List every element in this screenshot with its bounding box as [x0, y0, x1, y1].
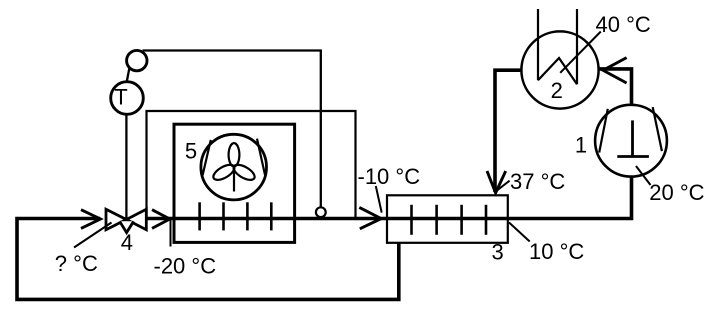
wire: main pipe from valve 4 through evaporator and exchanger 3 to compressor 1 suction [146, 176, 632, 218]
leader line for 37 °C [497, 181, 510, 191]
wire: compressor 1 discharge to condenser 2 [599, 69, 632, 105]
wire: condenser 2 outlet down to heat exchanger 3 top [495, 70, 522, 192]
evaporator tick 4 [270, 202, 273, 230]
leader line for 10 °C [509, 222, 530, 241]
compressor right chord [653, 107, 662, 151]
expansion valve 4 right triangle [126, 209, 146, 229]
fan left chord [203, 140, 211, 175]
condenser water pipe right [576, 9, 578, 84]
wire: sensing bulb line from bulb to node on suction pipe [143, 51, 321, 208]
heat exchanger 3 box [387, 195, 508, 243]
svg-text:10 °C: 10 °C [529, 239, 584, 264]
wire: bottom return loop from heat exchanger 3 outlet to expansion valve inlet [17, 219, 399, 300]
condenser zigzag coil [538, 58, 577, 84]
thermostat T circle [111, 82, 144, 115]
node: sensor bulb node circle on pipe after evaporator [316, 207, 326, 217]
condenser 2 circle [521, 31, 598, 108]
svg-text:37 °C: 37 °C [510, 169, 565, 194]
svg-text:-20 °C: -20 °C [154, 254, 217, 279]
svg-text:T: T [114, 85, 127, 110]
svg-text:-10 °C: -10 °C [358, 164, 421, 189]
fan stem [233, 167, 235, 192]
flow arrow before valve 4 [81, 210, 101, 229]
evaporator tick 3 [246, 202, 249, 230]
expansion valve 4 lower V actuator [120, 221, 134, 232]
condenser water pipe left [537, 9, 539, 80]
svg-text:20 °C: 20 °C [649, 180, 704, 205]
fan propeller petal lower-left [231, 162, 257, 183]
flow arrow into condenser 2 [603, 58, 627, 83]
svg-text:40 °C: 40 °C [596, 12, 651, 37]
svg-text:? °C: ? °C [55, 251, 98, 276]
compressor left chord [599, 109, 608, 153]
svg-text:2: 2 [551, 78, 563, 103]
svg-text:3: 3 [491, 239, 503, 264]
leader line for 40 °C [560, 32, 601, 73]
flow arrow after valve 4 [152, 210, 170, 229]
sensor bulb circle [127, 50, 147, 70]
leader line for -10 °C [376, 186, 382, 213]
expansion valve 4 left triangle [106, 209, 126, 229]
svg-text:4: 4 [121, 230, 133, 255]
fan propeller petal up [229, 143, 240, 166]
evaporator box 5 (inner thick box) [174, 124, 295, 242]
exchanger tick 3 [460, 205, 463, 235]
exchanger tick 4 [485, 205, 488, 235]
leader line for 20 °C [636, 166, 651, 185]
svg-text:5: 5 [185, 139, 197, 164]
exchanger tick 1 [410, 205, 413, 235]
compressor inverted-T stem [631, 120, 634, 156]
leader line for ? °C [74, 223, 112, 248]
flow arrow down into exchanger 3 [487, 171, 506, 193]
flow arrow before heat exchanger 3 [359, 207, 381, 228]
fan propeller petal lower-right [211, 162, 237, 183]
compressor inverted-T bar [617, 155, 649, 158]
leader line for -20 °C [170, 220, 172, 247]
fan right chord [257, 139, 265, 176]
compressor 1 circle [595, 105, 667, 177]
wire: capillary from thermostat T down to valve 4 [125, 114, 127, 219]
evaporator tick 2 [222, 202, 225, 230]
enclosure: outer cold-room box around evaporator [147, 111, 356, 219]
exchanger tick 2 [435, 205, 438, 235]
wire: link between thermostat T and bulb circle [127, 69, 130, 83]
svg-text:1: 1 [575, 132, 587, 157]
evaporator tick 1 [198, 202, 201, 230]
fan circle of evaporator 5 [201, 134, 267, 200]
